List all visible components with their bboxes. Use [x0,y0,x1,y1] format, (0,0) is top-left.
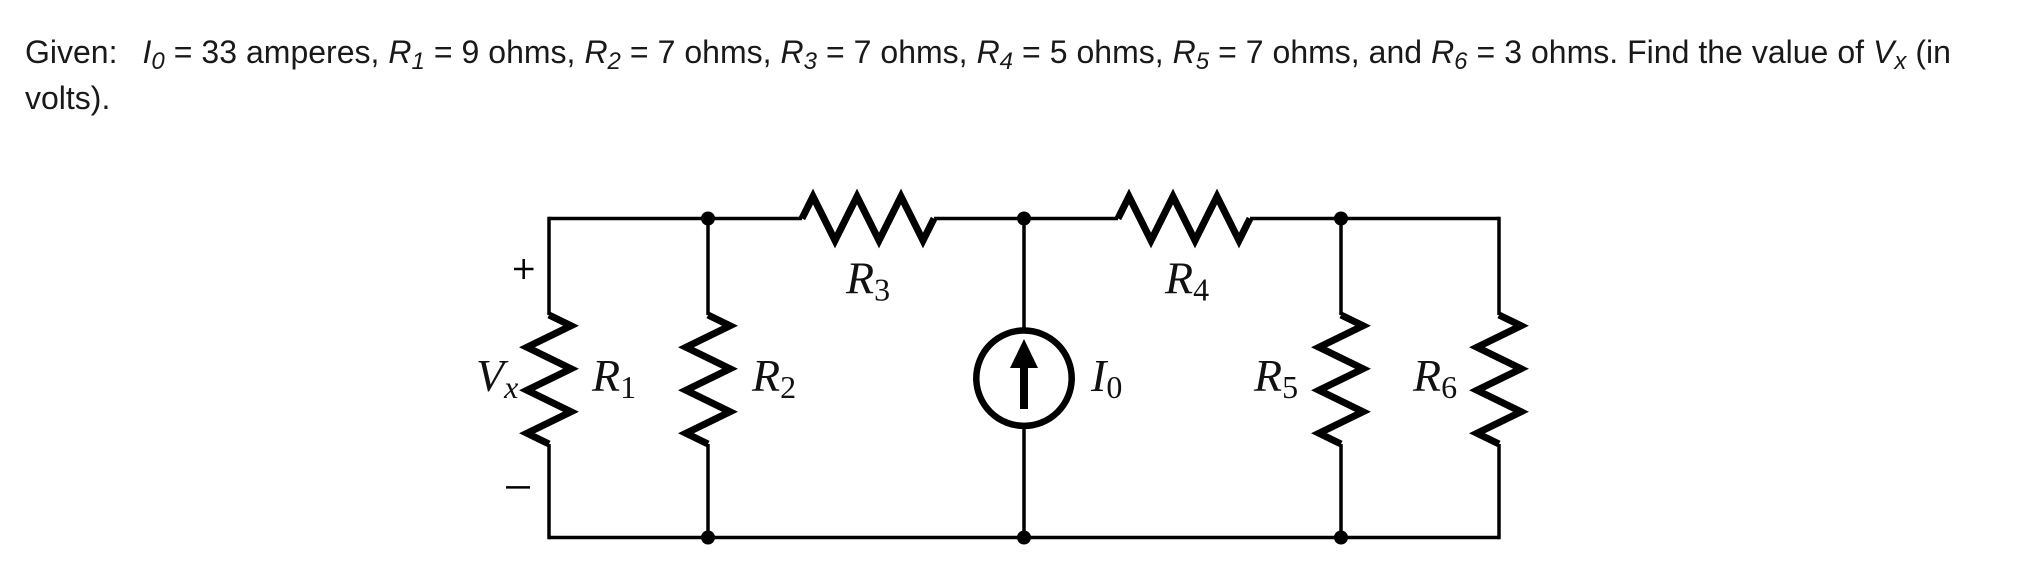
svg-text:I0: I0 [1090,350,1122,405]
svg-text:R2: R2 [751,350,796,405]
node F (bottom R5) [1334,531,1348,545]
wire right bottom (below R6) [1497,444,1501,539]
resistor R3 [802,197,934,241]
minus sign [506,486,530,489]
current source I0 [976,331,1071,426]
wire top: left corner to R3 [549,217,802,221]
wire R2 branch bottom [706,444,710,538]
resistor R4 [1118,197,1250,241]
node B (top I0) [1017,212,1031,226]
resistor R6 [1477,315,1521,444]
wire left top (above R1) [547,217,551,315]
wire bottom [549,536,1499,540]
node E (bottom I0) [1017,531,1031,545]
wire top: R3 to R4 [934,217,1118,221]
current source arrow [1020,364,1028,409]
svg-text:R4: R4 [1164,253,1209,308]
svg-text:R6: R6 [1412,350,1457,405]
wire R5 branch top [1339,219,1343,316]
plus sign [514,259,534,279]
node C (top R5) [1334,212,1348,226]
svg-text:R1: R1 [591,350,636,405]
node D (bottom R2) [701,531,715,545]
resistor R5 [1319,315,1363,444]
wire R5 branch bottom [1339,444,1343,538]
wire I0 branch bottom [1022,426,1026,538]
resistor R2 [686,315,730,444]
wire left bottom (below R1) [547,444,551,539]
svg-text:R3: R3 [845,253,890,308]
node A (top R2) [701,212,715,226]
wire top: R4 to right corner [1250,217,1499,221]
svg-text:R5: R5 [1253,350,1298,405]
wire right top (above R6) [1497,217,1501,315]
wire R2 branch top [706,219,710,316]
svg-text:Vx: Vx [476,350,518,405]
wire I0 branch top [1022,219,1026,331]
resistor R1 [527,315,571,444]
problem statement text [25,29,1951,121]
